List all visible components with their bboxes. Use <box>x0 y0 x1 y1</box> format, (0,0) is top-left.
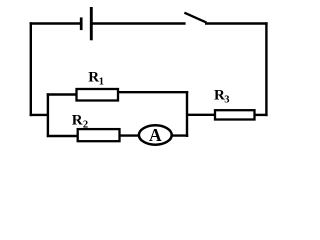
svg-text:A: A <box>149 125 162 145</box>
svg-text:2: 2 <box>83 119 88 130</box>
svg-text:1: 1 <box>99 76 104 87</box>
svg-text:R: R <box>88 70 99 86</box>
svg-text:R: R <box>72 113 83 129</box>
svg-text:3: 3 <box>224 94 229 105</box>
